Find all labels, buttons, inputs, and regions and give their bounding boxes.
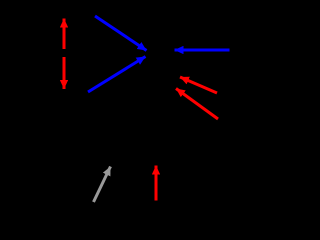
blue arrow from lower left to center [88, 57, 146, 93]
red up arrow left [63, 19, 66, 50]
red diagonal arrow upper right [180, 77, 217, 93]
blue horizontal arrow pointing left [175, 49, 230, 52]
red down arrow left [63, 57, 66, 89]
red diagonal arrow lower right [176, 89, 218, 120]
gray arrow bottom [94, 167, 111, 203]
blue arrow from upper left to center [95, 16, 147, 51]
red up arrow bottom center [155, 166, 158, 201]
